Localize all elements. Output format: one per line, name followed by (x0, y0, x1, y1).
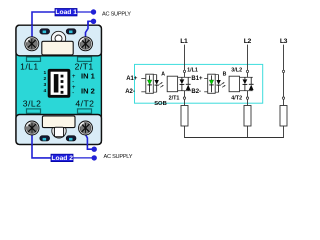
opto coupling arrows B (221, 82, 225, 87)
wire entry slot bottom-left (40, 136, 50, 141)
common bus wire (184, 137, 284, 139)
SSR module body (16, 25, 101, 144)
wire 4/T2 screw to AC node (86, 130, 95, 149)
svg-text:2/T1: 2/T1 (75, 62, 94, 72)
connector pin 4 (61, 91, 64, 94)
SSR boundary box (135, 64, 263, 103)
wire A1+ to opto (141, 78, 146, 80)
AC supply node dot (top line) (91, 9, 96, 14)
triac A SCR down (180, 77, 185, 90)
wire R3 to bus (283, 126, 285, 138)
svg-text:A: A (161, 71, 165, 77)
svg-text:Load 2: Load 2 (51, 155, 73, 162)
svg-text:AC SUPPLY: AC SUPPLY (102, 12, 131, 18)
wire entry slot top-right (66, 29, 76, 34)
driver box A (167, 76, 177, 92)
svg-text:4/T2: 4/T2 (231, 96, 242, 102)
svg-text:AC SUPPLY: AC SUPPLY (104, 154, 133, 160)
svg-text:B: B (223, 71, 227, 77)
svg-text:B2-: B2- (191, 89, 201, 95)
screw terminal 3/L2 (25, 121, 39, 135)
triac B SCR down (243, 77, 248, 90)
clamp tab (bottom block) (54, 127, 63, 136)
wire circle to triac B (247, 73, 249, 78)
load resistor R2 (244, 106, 251, 127)
svg-text:1/L1: 1/L1 (20, 62, 39, 72)
triac A rails (178, 76, 191, 78)
svg-text:4: 4 (43, 88, 46, 94)
svg-text:3: 3 (43, 82, 46, 88)
label plate (bottom block) (42, 116, 75, 128)
svg-text:4/T2: 4/T2 (75, 98, 94, 108)
svg-text:1/L1: 1/L1 (187, 68, 198, 74)
triac A SCR up (186, 77, 191, 90)
LED A (147, 75, 151, 92)
screw terminal 4/T2 (79, 121, 93, 135)
wire entry slot top-left (40, 29, 50, 34)
svg-text:A2-: A2- (125, 89, 135, 95)
terminal circle L3 top (282, 70, 284, 72)
AC supply node dot 2 (to 2/T1) (91, 19, 96, 24)
svg-text:3/L2: 3/L2 (231, 68, 242, 74)
terminal circle 1/L1 (183, 70, 185, 72)
wire Load 2 to AC supply node (73, 157, 94, 159)
svg-text:L2: L2 (244, 38, 252, 45)
screw terminal 1/L1 (25, 37, 39, 51)
svg-text:B1+: B1+ (191, 76, 203, 82)
wire circle to triac A (184, 73, 186, 78)
terminal circle 4/T2 (246, 97, 248, 99)
wire L1 down to terminal (184, 45, 186, 71)
svg-text:2: 2 (43, 76, 46, 82)
label plate (top block) (42, 41, 73, 55)
reverse diode B (215, 75, 221, 93)
load resistor R1 (181, 106, 188, 127)
terminal circle 3/L2 (246, 70, 248, 72)
triac B SCR up (249, 77, 254, 90)
opto coupling arrows A (159, 82, 163, 87)
svg-text:1: 1 (43, 70, 46, 76)
wire terminal to load resistor R3 (283, 99, 285, 105)
connector key bar (54, 74, 59, 92)
svg-text:-: - (72, 90, 74, 97)
wire L2 down to terminal (247, 45, 249, 71)
wire B1+ to opto (204, 78, 208, 80)
connector pin 1 (61, 75, 64, 78)
wire terminal to load resistor R1 (184, 99, 186, 105)
load resistor R3 (280, 106, 287, 127)
wire over block to 2/T1 screw (86, 21, 89, 41)
arch ring (top block) (51, 31, 65, 45)
mounting tab bottom-right (78, 109, 92, 113)
wire R2 to bus (247, 126, 249, 138)
AC supply node dot (bottom) (92, 155, 97, 160)
svg-text:Load 1: Load 1 (55, 9, 77, 16)
wire from 1/L1 screw to Load 1 (32, 12, 55, 40)
connector pin 2 (61, 80, 64, 83)
wire triac B to terminal 4/T2 (247, 91, 249, 97)
connector pin 3 (61, 86, 64, 89)
bottom terminal block (16, 115, 101, 145)
terminal circle L3 bottom (282, 97, 284, 99)
terminal circle 2/T1 (183, 97, 185, 99)
screw terminal 2/T1 (79, 37, 93, 51)
Load 1 label box (55, 9, 77, 17)
mounting tab top-right (78, 57, 92, 61)
svg-text:IN 1: IN 1 (81, 71, 95, 80)
svg-text:IN 2: IN 2 (81, 87, 95, 96)
svg-text:2/T1: 2/T1 (169, 96, 180, 102)
wire L3 through (283, 73, 285, 97)
driver box B (229, 76, 239, 92)
svg-text:L3: L3 (280, 38, 288, 45)
wire from 3/L2 screw to Load 2 (32, 133, 51, 158)
wire over block from 4/T2 screw (86, 130, 88, 145)
wire triac A to terminal 2/T1 (184, 91, 186, 97)
LED B (209, 75, 213, 92)
wire terminal to load resistor R2 (247, 99, 249, 105)
mounting tab bottom-left (27, 109, 41, 113)
svg-text:A1+: A1+ (126, 76, 138, 82)
reverse diode A (153, 75, 159, 93)
AC supply node dot (from 4/T2) (92, 147, 97, 152)
arch ring (bottom block) (52, 124, 66, 138)
opto box B (208, 74, 216, 93)
wire R1 to bus (184, 126, 186, 138)
svg-text:3/L2: 3/L2 (23, 98, 42, 108)
mounting tab top-left (27, 57, 41, 61)
svg-text:L1: L1 (180, 38, 188, 45)
wire over block to 1/L1 screw (31, 25, 33, 41)
opto box A (146, 74, 154, 93)
triac B rails (240, 76, 253, 78)
wire over block from 3/L2 screw (31, 131, 33, 145)
top terminal block (16, 25, 101, 56)
wire A2- to opto (141, 91, 146, 93)
wire B2- to opto (204, 91, 208, 93)
svg-text:SOB: SOB (154, 101, 167, 107)
Load 2 label box (51, 154, 73, 162)
wire AC node to 2/T1 screw (86, 21, 94, 40)
wire Load 1 to AC supply node (77, 11, 94, 13)
wire entry slot bottom-right (66, 136, 76, 141)
control connector box (48, 69, 71, 98)
wire L3 down (283, 45, 285, 71)
